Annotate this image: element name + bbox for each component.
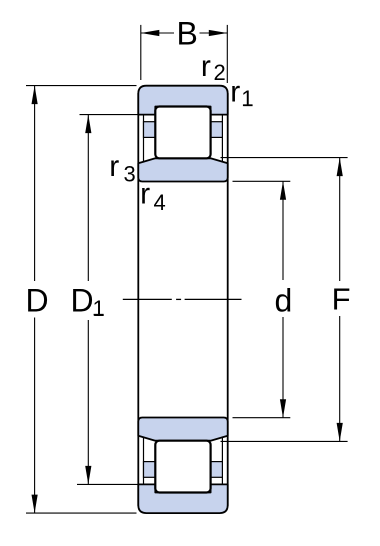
svg-text:F: F bbox=[332, 282, 351, 317]
svg-text:r: r bbox=[201, 50, 211, 83]
svg-text:1: 1 bbox=[241, 86, 253, 111]
svg-text:r: r bbox=[230, 76, 240, 109]
svg-text:d: d bbox=[275, 283, 293, 319]
svg-text:D: D bbox=[71, 283, 94, 319]
svg-text:B: B bbox=[177, 16, 198, 52]
svg-text:1: 1 bbox=[93, 296, 105, 321]
svg-text:r: r bbox=[140, 178, 150, 211]
svg-text:3: 3 bbox=[124, 162, 136, 187]
svg-text:r: r bbox=[109, 150, 119, 183]
svg-text:4: 4 bbox=[154, 190, 166, 215]
svg-text:2: 2 bbox=[214, 60, 226, 85]
svg-text:D: D bbox=[26, 283, 49, 319]
